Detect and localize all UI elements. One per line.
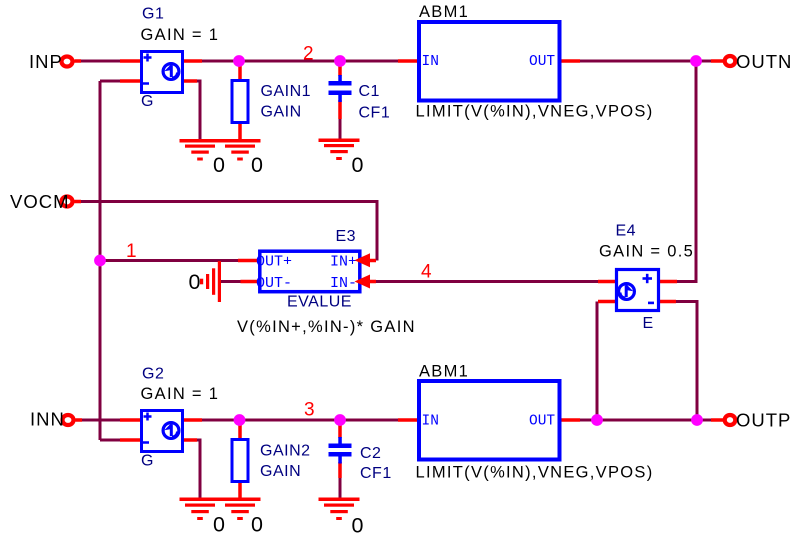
pin stub G2 minus input (120, 438, 141, 442)
wire G1 minus input (100, 80, 121, 83)
pin stub INP (75, 59, 82, 63)
svg-text:1: 1 (126, 241, 137, 262)
pin stub R2 top (238, 423, 242, 438)
pin stub ABM1b IN (398, 418, 418, 422)
wire E3 OUT- to ground (220, 280, 241, 283)
pin stub G1 minus input (120, 79, 141, 83)
junction OUTP right (691, 414, 703, 426)
svg-text:GAIN2: GAIN2 (260, 443, 311, 460)
ground under R1 (220, 139, 261, 161)
wire node2 INP to G1 (80, 60, 121, 63)
G-source G2 (142, 411, 183, 452)
svg-text:CF1: CF1 (359, 105, 391, 122)
wire E4 minus to OUTP net right (675, 302, 697, 421)
port INP (62, 57, 73, 67)
svg-text:GAIN = 0.5: GAIN = 0.5 (599, 243, 694, 261)
svg-text:CF1: CF1 (360, 465, 392, 482)
pin stub E3 IN- (361, 280, 376, 284)
pin stub R1 top (238, 64, 242, 79)
capacitor C2 (329, 437, 352, 464)
resistor GAIN1 (232, 81, 248, 123)
pin stub ABM1 IN (398, 59, 418, 63)
svg-text:INN: INN (30, 409, 65, 430)
svg-text:ABM1: ABM1 (419, 363, 469, 381)
svg-text:G2: G2 (142, 366, 164, 383)
port OUTN (725, 56, 736, 66)
pin stub G1 out minus (182, 79, 197, 83)
junction OUTN branch (690, 55, 702, 67)
junction node 3 at R2 (234, 414, 246, 426)
svg-text:GAIN: GAIN (261, 104, 302, 121)
svg-text:OUT-: OUT- (256, 275, 292, 292)
svg-text:0: 0 (213, 153, 225, 177)
pin stub OUTN port (711, 59, 724, 63)
ABM1 block bottom (419, 381, 560, 460)
svg-text:3: 3 (304, 400, 315, 421)
junction node 2 at C1 (334, 55, 346, 67)
pin stub C1 top (338, 64, 342, 76)
svg-text:INP: INP (29, 51, 63, 72)
wire node 3 (201, 419, 399, 422)
pin stub C2 top (338, 423, 342, 438)
wire C1 to ground (339, 119, 342, 140)
svg-text:0: 0 (251, 513, 263, 537)
port VOCM (62, 197, 73, 207)
wire ABM1b OUT to OUTP (579, 419, 712, 422)
svg-text:ABM1: ABM1 (419, 3, 469, 21)
pin stub E3 OUT+ (238, 259, 259, 263)
pin stub E3 IN+ (361, 259, 376, 263)
svg-text:OUT+: OUT+ (256, 254, 292, 271)
svg-text:0: 0 (251, 153, 263, 177)
svg-text:IN-: IN- (330, 275, 357, 292)
junction OUTP at E4 out- (591, 414, 603, 426)
capacitor C1 (329, 75, 352, 102)
svg-text:GAIN = 1: GAIN = 1 (141, 385, 220, 403)
svg-text:GAIN = 1: GAIN = 1 (141, 26, 220, 44)
svg-text:IN: IN (422, 54, 439, 70)
svg-text:4: 4 (421, 262, 432, 283)
svg-text:V(%IN+,%IN-)* GAIN: V(%IN+,%IN-)* GAIN (237, 318, 416, 336)
wire C2 to ground (339, 478, 342, 499)
wire VOCM drop to E3 IN+ (376, 200, 379, 261)
svg-text:IN: IN (422, 414, 439, 430)
pin stub E4 out minus (658, 300, 676, 304)
svg-text:OUT: OUT (529, 54, 555, 70)
pin stub G1 out plus (182, 59, 202, 63)
pin stub ABM1 OUT (560, 59, 580, 63)
wire node 1 horizontal (100, 259, 238, 262)
ground under C1 (319, 139, 360, 161)
svg-text:LIMIT(V(%IN),VNEG,VPOS): LIMIT(V(%IN),VNEG,VPOS) (416, 103, 654, 121)
G-source G1 (142, 52, 183, 93)
pin stub R1 bottom (238, 124, 242, 140)
svg-text:0: 0 (352, 153, 364, 177)
svg-text:LIMIT(V(%IN),VNEG,VPOS): LIMIT(V(%IN),VNEG,VPOS) (416, 464, 654, 482)
svg-text:E: E (643, 315, 654, 332)
pin stub E4 in plus (598, 280, 617, 284)
svg-text:C1: C1 (359, 83, 380, 100)
svg-text:G: G (141, 453, 154, 470)
svg-text:GAIN1: GAIN1 (261, 83, 312, 100)
wire OUTN branch down to E4 + (677, 61, 696, 282)
svg-text:0: 0 (352, 514, 364, 538)
ground under G2 out (180, 498, 221, 521)
pin stub C2 bottom (338, 462, 342, 478)
svg-text:2: 2 (303, 44, 314, 65)
pin stub G2 out minus (182, 438, 197, 442)
svg-text:OUT: OUT (529, 414, 555, 430)
wire VOCM horizontal (80, 200, 379, 203)
resistor GAIN2 (232, 440, 248, 482)
svg-text:E3: E3 (336, 228, 357, 245)
ground under R2 (220, 498, 261, 521)
svg-text:OUTN: OUTN (736, 51, 792, 72)
ground under C2 (319, 498, 360, 521)
wire E4 out- drop to OUTP net (596, 302, 599, 421)
ground rotated at E3 OUT- (200, 261, 221, 302)
wire node 2 G1 out to ABM1 (201, 60, 399, 63)
junction node 3 at C2 (334, 414, 346, 426)
ABM1 block top (419, 22, 560, 101)
pin stub E4 out plus (658, 280, 677, 284)
svg-text:E4: E4 (616, 223, 637, 240)
junction node 1 (94, 255, 106, 267)
wire node 4 horizontal (376, 280, 598, 283)
wire INN to G2 (81, 419, 121, 422)
pin stub OUTP port (711, 418, 724, 422)
svg-text:VOCM: VOCM (10, 191, 70, 212)
EVALUE block E3 (256, 251, 370, 292)
ground under G1 out (180, 139, 221, 161)
port INN (63, 415, 74, 425)
svg-text:0: 0 (213, 513, 225, 537)
pin stub ABM1b OUT (560, 418, 580, 422)
pin stub G2 plus input (120, 418, 141, 422)
svg-text:G1: G1 (142, 6, 164, 23)
svg-text:C2: C2 (360, 445, 381, 462)
svg-text:0: 0 (189, 270, 201, 294)
pin stub E4 in minus (598, 300, 617, 304)
pin stub R2 bottom (238, 483, 242, 499)
pin stub G2 out plus (182, 418, 202, 422)
svg-text:G: G (141, 93, 154, 110)
pin stub VOCM (75, 200, 82, 204)
svg-text:EVALUE: EVALUE (287, 294, 352, 311)
wire ABM1 OUT to OUTN (579, 60, 712, 63)
pin stub C1 bottom (338, 100, 342, 119)
wire G1 out- to ground (196, 81, 200, 140)
E-source E4 (617, 270, 659, 311)
svg-text:OUTP: OUTP (736, 410, 791, 431)
port OUTP (725, 415, 736, 425)
pin stub INN (76, 418, 83, 422)
wire left long vertical (99, 81, 102, 440)
svg-text:IN+: IN+ (330, 254, 357, 271)
pin stub E3 OUT- (241, 280, 260, 284)
wire G2 out- to ground (196, 440, 200, 499)
junction node 2 at R1 (233, 55, 245, 67)
svg-text:GAIN: GAIN (260, 463, 301, 480)
pin stub G1 plus input (120, 59, 141, 63)
wire G2 minus input (100, 439, 121, 442)
